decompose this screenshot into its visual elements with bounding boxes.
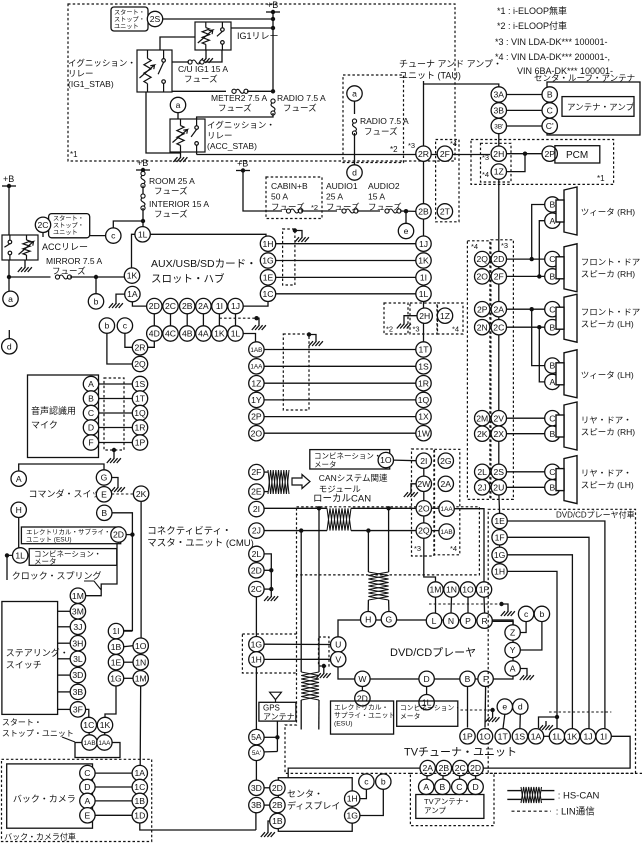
junction CAN-L branch 1: [299, 528, 303, 532]
svg-text:1R: 1R: [135, 423, 146, 433]
wire 2O-2Q: [423, 516, 425, 523]
svg-text:CANシステム関連: CANシステム関連: [319, 473, 388, 483]
wire B down to 1I: [112, 513, 132, 631]
svg-text:1Z: 1Z: [251, 378, 261, 388]
GPS antenna symbol: [270, 692, 282, 702]
svg-text:Y: Y: [510, 645, 516, 655]
speaker front door RH: [556, 244, 577, 292]
svg-text:R: R: [481, 616, 487, 626]
svg-text:1L: 1L: [138, 229, 148, 239]
connector pin D: [83, 420, 98, 435]
wire b to Y: [520, 622, 542, 650]
wire camera A-1B: [95, 800, 132, 802]
connector pin 1AB: [249, 342, 264, 357]
connector pin 1M: [428, 582, 443, 597]
connector pin 1I: [108, 623, 123, 638]
svg-text:1L: 1L: [419, 289, 429, 299]
wire 1L to 1H: [150, 234, 266, 236]
connector pin 1L: [13, 548, 28, 563]
svg-text:1S: 1S: [418, 361, 429, 371]
svg-text:1I: 1I: [600, 731, 607, 741]
svg-text:B: B: [550, 429, 556, 439]
svg-text:5A: 5A: [251, 732, 262, 742]
dashed box *3 column: [412, 449, 434, 556]
connector pin 1G: [345, 808, 360, 823]
svg-text:2Q: 2Q: [476, 254, 488, 264]
svg-text:1B: 1B: [111, 642, 122, 652]
wire 2W-2O: [423, 492, 425, 501]
wire A to G: [19, 464, 104, 471]
connector pin 2Q: [475, 251, 490, 266]
connector pin 2H: [491, 146, 506, 161]
connector pin 1C: [132, 779, 147, 794]
connector pin e: [398, 223, 413, 238]
DVD/CD player equipped dashed box: [488, 509, 635, 773]
wire to 1E: [318, 700, 320, 730]
svg-text:2A: 2A: [422, 763, 433, 773]
connector pin C: [545, 411, 560, 426]
wire c to start-stop unit: [90, 235, 106, 237]
connector pin 1S: [132, 376, 147, 391]
connector pin 1E: [108, 655, 123, 670]
wire 2B to 1J: [423, 219, 425, 236]
junction: [275, 735, 279, 739]
wire 2L down: [264, 554, 271, 589]
svg-text:1H: 1H: [347, 794, 358, 804]
ESU box 2: [331, 701, 394, 734]
svg-text:2G: 2G: [440, 456, 452, 466]
PCM pins dashed box: [481, 143, 512, 182]
svg-text:*2: *2: [390, 145, 398, 154]
speaker rear door LH: [556, 456, 577, 504]
connector pin 2B: [436, 760, 451, 775]
svg-text:AUDIO2: AUDIO2: [368, 181, 400, 191]
wire a to radio fuse: [354, 101, 356, 114]
svg-text:U: U: [335, 640, 341, 650]
wire clock spring column: [139, 638, 142, 765]
svg-text:2J: 2J: [478, 482, 487, 492]
svg-text:A: A: [88, 379, 94, 389]
wire camera C-1A: [95, 772, 132, 774]
connector pin B: [545, 358, 560, 373]
svg-text:5A': 5A': [252, 750, 261, 757]
svg-text:2R: 2R: [135, 342, 146, 352]
svg-text:25 A: 25 A: [326, 192, 343, 202]
wire 1L to 2H: [423, 302, 425, 309]
svg-text:15 A: 15 A: [368, 192, 385, 202]
svg-text:フロント・ドア・: フロント・ドア・: [581, 257, 642, 267]
connector pin B: [545, 197, 560, 212]
connector pin B: [545, 269, 560, 284]
svg-text:3B: 3B: [73, 687, 84, 697]
shield dashed box mic: [104, 378, 124, 450]
wire B to 1P: [467, 687, 469, 728]
svg-text:ユニット: ユニット: [53, 230, 78, 237]
connector pin 2V: [491, 411, 506, 426]
combination meter box 2: [397, 701, 458, 726]
svg-text:1L: 1L: [552, 731, 562, 741]
svg-text:クロック・スプリング: クロック・スプリング: [12, 570, 102, 581]
connector pin H: [11, 502, 26, 517]
svg-text:2P: 2P: [477, 304, 488, 314]
wire 1E-1H vertical chain: [499, 521, 501, 564]
svg-text:1Z: 1Z: [494, 167, 504, 177]
svg-text:ツィータ (RH): ツィータ (RH): [581, 207, 635, 217]
dashed box *3 speaker column: [491, 240, 514, 500]
wire d stub: [8, 330, 10, 339]
svg-text:D: D: [84, 782, 90, 792]
connector pin 2G: [438, 453, 453, 468]
svg-text:1T: 1T: [418, 345, 429, 355]
connector pin 2K: [475, 426, 490, 441]
svg-text:2R: 2R: [418, 149, 429, 159]
wire c to 1H: [360, 789, 367, 798]
speaker front door LH: [556, 294, 577, 342]
svg-text:1Z: 1Z: [440, 311, 450, 321]
connector pin Z: [505, 625, 520, 640]
wire 1E-1N: [124, 661, 133, 663]
svg-text:スタート・: スタート・: [53, 215, 84, 223]
wire steering 3D stub: [58, 674, 71, 676]
connector pin F: [478, 671, 493, 686]
svg-text:ストップ・: ストップ・: [114, 17, 145, 24]
wire antenna stub: [459, 776, 461, 779]
ground G: [111, 483, 125, 492]
svg-text:A: A: [510, 664, 516, 674]
wire ACC output to TAU/PCM (y=154): [197, 154, 490, 156]
connector pin 2R: [132, 340, 147, 355]
wire mic C-1Q: [99, 412, 133, 414]
svg-text:RADIO 7.5 A: RADIO 7.5 A: [277, 93, 326, 103]
svg-text:50 A: 50 A: [271, 192, 288, 202]
connector pin e: [497, 699, 512, 714]
connector pin R: [477, 613, 492, 628]
connector pin E: [96, 487, 111, 502]
svg-text:チューナ アンド アンプ・: チューナ アンド アンプ・: [399, 59, 502, 69]
i-ELOOP condition dashed box *1: [68, 4, 455, 161]
connector pin 2A: [491, 302, 506, 317]
ground 2H: [397, 320, 411, 329]
shield dashed box CMU wires: [283, 334, 309, 410]
svg-text:1A: 1A: [531, 731, 542, 741]
junction: [404, 209, 408, 213]
svg-text:1J: 1J: [583, 731, 592, 741]
connector pin 2P: [542, 146, 557, 161]
connector pin 2O: [249, 426, 264, 441]
PCM box: [555, 146, 600, 163]
svg-text:ローカルCAN: ローカルCAN: [313, 494, 371, 505]
wire 1O to 2I: [394, 459, 416, 462]
svg-text:1C: 1C: [263, 289, 274, 299]
ground shield A: [295, 233, 309, 242]
svg-text:C': C': [546, 121, 554, 131]
wire 1L to 1K: [132, 234, 135, 268]
connector pin 1K: [416, 253, 431, 268]
connector pin 1D: [132, 808, 147, 823]
svg-text:2D: 2D: [493, 254, 504, 264]
connector pin G: [381, 612, 396, 627]
connector pin 1Z: [491, 164, 506, 179]
svg-text:1T: 1T: [135, 394, 146, 404]
junction: [269, 568, 273, 572]
fuse RADIO 7.5A: [271, 99, 275, 115]
connector pin 2E: [249, 484, 264, 499]
connector pin 2L: [249, 546, 264, 561]
wire 1G-1M: [124, 677, 133, 679]
connector pin 1K: [564, 729, 579, 744]
wire to CMU ground: [270, 589, 272, 592]
svg-text:(IG1_STAB): (IG1_STAB): [68, 79, 114, 89]
svg-text:コネクティビティ・: コネクティビティ・: [147, 526, 231, 537]
connector pin 3B: [491, 103, 506, 118]
wire to H: [367, 600, 369, 612]
junction: [537, 274, 541, 278]
dashed box *4 1Z: [438, 303, 464, 334]
svg-text:D: D: [88, 423, 94, 433]
svg-text:ストップ・ユニット: ストップ・ユニット: [2, 729, 74, 738]
wire shield C ground: [323, 666, 325, 669]
wire to 5A': [264, 751, 277, 753]
svg-text:A: A: [85, 796, 91, 806]
wire 3A-B: [507, 94, 543, 96]
svg-text:F: F: [483, 674, 488, 684]
connector pin 2M: [475, 411, 490, 426]
svg-text:3M: 3M: [72, 606, 84, 616]
connector pin 2C: [35, 217, 50, 232]
wire +B audio: [243, 171, 282, 212]
svg-text:1H: 1H: [251, 655, 262, 665]
connector pin 1G: [260, 253, 275, 268]
svg-text:N: N: [448, 616, 454, 626]
wire 1O to P: [467, 597, 469, 613]
svg-text:2L: 2L: [252, 549, 262, 559]
wire mic shield ground: [113, 450, 115, 454]
wire IG1_STAB to IG1 coil: [160, 37, 195, 50]
start-stop unit box 3: [75, 743, 120, 758]
junction: [254, 316, 258, 320]
svg-text:2X: 2X: [494, 429, 505, 439]
svg-text:*4: *4: [450, 544, 457, 553]
dashed box DVD pins condition: [242, 634, 296, 673]
svg-text:2D: 2D: [113, 530, 124, 540]
connector pin 1AA: [439, 501, 454, 516]
wire H to 1L: [18, 518, 20, 548]
svg-text:2D: 2D: [251, 565, 262, 575]
connector pin A: [83, 376, 98, 391]
svg-text:4C: 4C: [165, 329, 176, 339]
svg-text:3B': 3B': [494, 123, 503, 130]
svg-text:アンテナ・アンプ: アンテナ・アンプ: [567, 102, 635, 112]
connector pin b: [99, 318, 114, 333]
LIN dashed E to 2K: [112, 493, 134, 495]
svg-text:a: a: [352, 89, 357, 99]
svg-text:W: W: [358, 674, 367, 684]
svg-text:2E: 2E: [251, 487, 262, 497]
svg-text:1K: 1K: [127, 271, 138, 281]
svg-text:ツィータ (LH): ツィータ (LH): [581, 370, 634, 380]
svg-text:*3: *3: [413, 325, 420, 334]
wire relay grounds: [146, 92, 181, 153]
svg-text:2B: 2B: [272, 800, 283, 810]
connector pin 2Q: [132, 356, 147, 371]
svg-text:G: G: [386, 614, 393, 624]
fuse CABIN+B 50A: [286, 209, 302, 213]
wire 1P to R: [483, 597, 486, 613]
svg-text:3A: 3A: [494, 90, 505, 100]
svg-text:イグニッション・: イグニッション・: [207, 120, 275, 130]
svg-text:V: V: [335, 654, 341, 664]
wire branch tweeter LH B: [532, 309, 545, 365]
connector pin D: [468, 779, 483, 794]
connector pin 2T: [437, 204, 452, 219]
svg-text:d: d: [7, 341, 12, 351]
relay ACC_STAB: [170, 119, 205, 152]
svg-text:スタート・: スタート・: [2, 718, 42, 727]
wire 2I up: [423, 453, 425, 468]
wire ESU 2D to B net: [126, 534, 132, 536]
wire 1H loop to 1L: [507, 571, 557, 728]
svg-text:+B: +B: [267, 0, 278, 10]
connector pin 2L: [475, 464, 490, 479]
wire branch to c: [113, 221, 143, 228]
svg-text:マスタ・ユニット (CMU): マスタ・ユニット (CMU): [147, 538, 254, 549]
svg-text:1O: 1O: [380, 455, 392, 465]
svg-text:2C: 2C: [165, 301, 176, 311]
svg-text:2B: 2B: [182, 301, 193, 311]
svg-text:2D: 2D: [272, 783, 283, 793]
wire 1C to 1L: [276, 293, 416, 295]
combination meter box 3: [29, 549, 117, 566]
svg-text:B: B: [88, 394, 94, 404]
connector pin 2I: [249, 501, 264, 516]
svg-text:1M: 1M: [135, 673, 147, 683]
connector pin 2D: [147, 298, 162, 313]
connector pin 4D: [147, 326, 162, 341]
svg-text:1O: 1O: [462, 585, 474, 595]
junction: [269, 587, 273, 591]
connector pin d: [347, 165, 362, 180]
svg-text:4D: 4D: [149, 329, 160, 339]
connector pin W: [355, 671, 370, 686]
svg-text:C: C: [88, 408, 94, 418]
wire 1AA to 1S: [264, 365, 416, 367]
svg-text:サプライ・ユニット: サプライ・ユニット: [334, 712, 395, 720]
wire 1L left stub: [7, 555, 13, 580]
connector pin C: [545, 302, 560, 317]
connector pin A: [545, 213, 560, 228]
connector pin d: [2, 339, 17, 354]
connector pin 1J: [416, 236, 431, 251]
svg-text:リヤ・ドア・: リヤ・ドア・: [581, 468, 632, 478]
svg-text:フューズ: フューズ: [52, 266, 86, 276]
svg-text:1Q: 1Q: [134, 408, 146, 418]
junction: [7, 275, 11, 279]
svg-text:D: D: [423, 674, 429, 684]
fuse RADIO 7.5A alt: [352, 119, 356, 135]
svg-text:1E: 1E: [263, 273, 274, 283]
connector pin c: [518, 606, 533, 621]
svg-text:スピーカ (RH): スピーカ (RH): [581, 427, 635, 437]
wire steering 3F stub: [58, 708, 71, 710]
connector pin D: [80, 779, 95, 794]
connector pin B: [97, 505, 112, 520]
svg-text:2C: 2C: [38, 220, 49, 230]
wire 1C-1AB: [88, 733, 91, 735]
connector pin N: [443, 613, 458, 628]
svg-text:Z: Z: [510, 628, 515, 638]
connector pin 2B: [270, 797, 285, 812]
svg-text:*1: *1: [597, 174, 605, 183]
svg-text:1L: 1L: [231, 329, 241, 339]
connector pin 2D: [249, 563, 264, 578]
svg-text:1Q: 1Q: [418, 395, 430, 405]
speaker tweeter LH: [556, 350, 577, 398]
wire branch tweeter RH A: [539, 221, 544, 277]
junction: [499, 602, 503, 606]
svg-text:1E: 1E: [494, 516, 505, 526]
svg-text:*4: *4: [450, 139, 457, 148]
wire 2C stub: [42, 233, 44, 238]
svg-text:リヤ・ドア・: リヤ・ドア・: [581, 415, 632, 425]
svg-text:1K: 1K: [567, 731, 578, 741]
connector pin 1O: [460, 582, 475, 597]
wire 1E to 1I: [276, 276, 416, 278]
connector pin B: [545, 426, 560, 441]
wire 1B ground elbow: [268, 821, 270, 828]
connector pin E: [80, 808, 95, 823]
svg-text:2T: 2T: [440, 207, 451, 217]
GPS antenna box: [259, 702, 296, 721]
connector pin 2C: [453, 760, 468, 775]
wire 1H to V: [264, 658, 330, 660]
connector pin 1P: [132, 435, 147, 450]
connector pin 1M: [70, 588, 85, 603]
svg-text:3F: 3F: [73, 705, 83, 715]
svg-text:リレー: リレー: [207, 131, 233, 141]
svg-text:C: C: [549, 413, 555, 423]
svg-text:*3: *3: [408, 141, 415, 150]
svg-text:1I: 1I: [112, 626, 119, 636]
connector pin 1Q: [416, 392, 431, 407]
wire 1A tap: [539, 717, 558, 728]
wire 2E: [264, 491, 268, 493]
LIN dashed tap on 1J-1L wire: [219, 317, 256, 319]
svg-text:*1 : i-ELOOP無車: *1 : i-ELOOP無車: [497, 5, 567, 16]
connector pin F: [83, 435, 98, 450]
wire IG1 switch to +B: [231, 27, 273, 29]
speaker rear door RH: [556, 402, 577, 450]
svg-text:2S: 2S: [150, 14, 161, 24]
svg-text:3L: 3L: [73, 654, 83, 664]
connector pin 3D: [70, 667, 85, 682]
svg-text:フューズ: フューズ: [283, 103, 317, 113]
wire camera shield to display: [140, 823, 256, 830]
wire ESU to 1M: [86, 544, 117, 596]
svg-text:1G: 1G: [494, 550, 506, 560]
wire antenna stub: [426, 776, 428, 779]
svg-text:1AA: 1AA: [250, 364, 263, 371]
wire branch tweeter RH B: [532, 205, 545, 260]
svg-text:フューズ: フューズ: [218, 103, 252, 113]
connector pin 1I: [212, 298, 227, 313]
ground shield B: [309, 337, 323, 346]
svg-text:L: L: [432, 616, 437, 626]
connector pin 1P: [476, 582, 491, 597]
svg-text:*3 : VIN LDA-DK*** 100001-: *3 : VIN LDA-DK*** 100001-: [495, 37, 608, 47]
svg-text:スピーカ (LH): スピーカ (LH): [581, 480, 634, 490]
svg-text:1M: 1M: [430, 585, 442, 595]
wire 2S to C RL: [507, 471, 545, 473]
